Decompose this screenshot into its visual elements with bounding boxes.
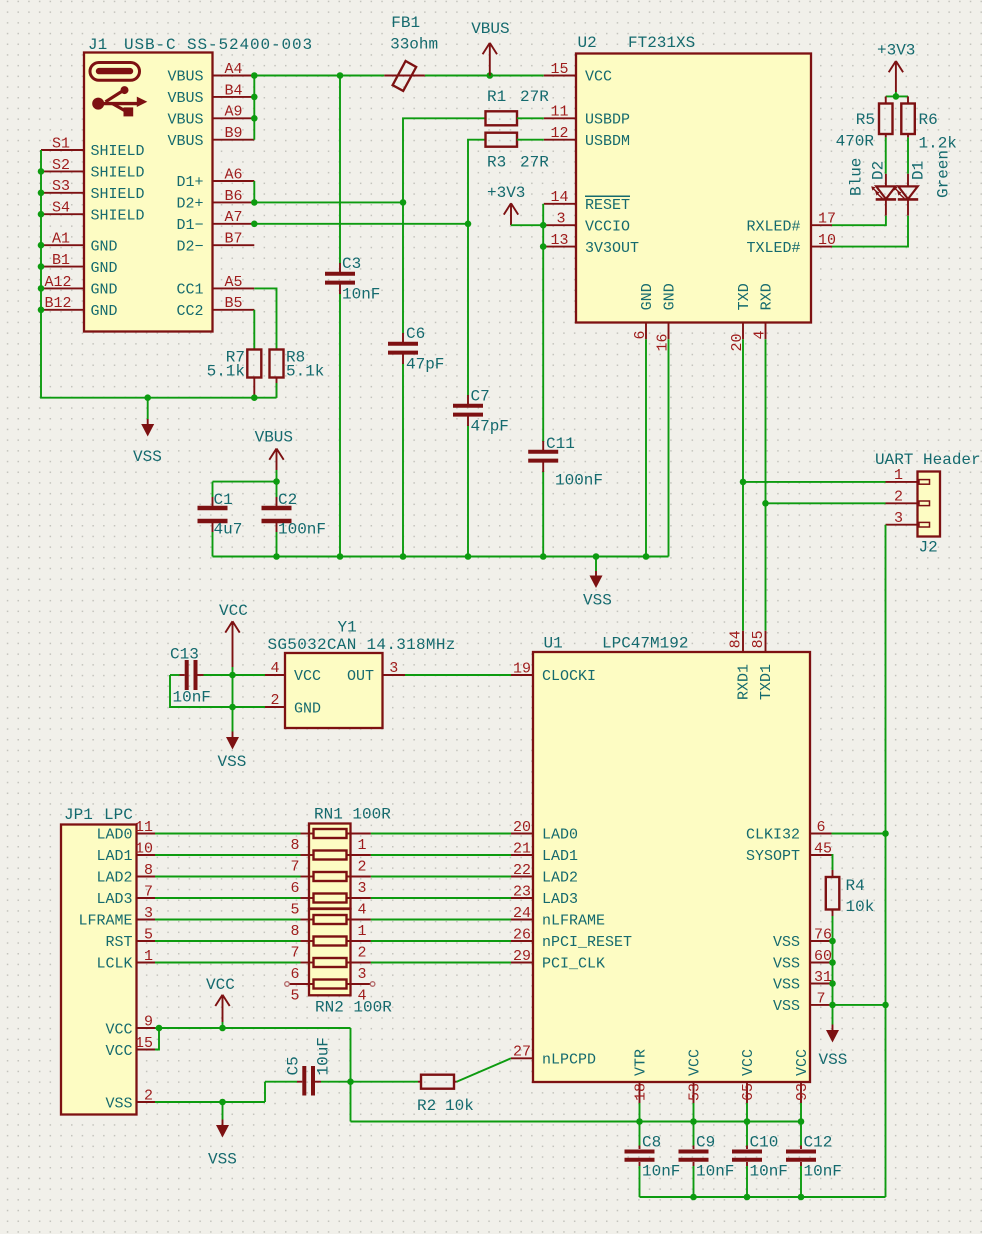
J1 pin B9 VBUS (167, 125, 254, 150)
svg-text:D2+: D2+ (176, 196, 203, 213)
svg-text:LAD3: LAD3 (542, 891, 578, 908)
RN1 resistor element 2 (314, 851, 347, 860)
svg-text:10nF: 10nF (342, 286, 380, 304)
connector J1 USB-C (84, 36, 313, 332)
svg-text:6: 6 (290, 966, 299, 983)
ground VSS mid (583, 557, 612, 610)
junction rail C2 (273, 553, 280, 560)
svg-text:2: 2 (894, 489, 903, 506)
U2 pin 4 RXD (752, 283, 776, 339)
wire GND6 down (645, 339, 647, 556)
U1 pin 60 VSS (773, 948, 832, 973)
svg-text:USBDM: USBDM (585, 133, 630, 150)
svg-text:10nF: 10nF (750, 1163, 788, 1181)
J1 pin S4 SHIELD (41, 200, 145, 225)
svg-text:RXLED#: RXLED# (746, 218, 800, 235)
junction C6 top (400, 199, 407, 206)
svg-text:C8: C8 (642, 1134, 661, 1152)
junction A1 (38, 242, 45, 249)
svg-text:J1: J1 (88, 36, 107, 54)
wire LAD0 RN1-U1 (371, 833, 511, 835)
svg-text:21: 21 (513, 840, 531, 857)
svg-text:27: 27 (513, 1044, 531, 1061)
junction VBUS C2 (273, 478, 280, 485)
svg-text:19: 19 (513, 660, 531, 677)
svg-text:LAD3: LAD3 (96, 891, 132, 908)
svg-text:85: 85 (750, 630, 767, 648)
junction VCC65 (744, 1118, 751, 1125)
svg-text:8: 8 (290, 837, 299, 854)
junction RXD J2 (762, 500, 769, 507)
RN2 pin 3 (347, 963, 371, 984)
U2 pin 6 GND (632, 283, 656, 339)
wire VTR drop (639, 1103, 641, 1122)
svg-text:11: 11 (550, 104, 568, 121)
svg-text:VCCIO: VCCIO (585, 218, 630, 235)
svg-text:TXD1: TXD1 (758, 664, 775, 700)
svg-text:VTR: VTR (633, 1049, 650, 1076)
svg-text:10uF: 10uF (314, 1037, 332, 1075)
svg-text:D2−: D2− (176, 238, 203, 255)
svg-text:VCC: VCC (585, 69, 612, 86)
svg-text:S4: S4 (52, 200, 70, 217)
wire VCC65 drop (746, 1103, 748, 1122)
U1 pin 76 VSS (773, 926, 832, 951)
junction VCCIO (540, 222, 547, 229)
resistor R7 5.1k (207, 349, 262, 398)
svg-text:100nF: 100nF (278, 521, 326, 539)
power symbol +3V3 at VCCIO (487, 184, 525, 225)
ground VSS bottom (208, 1102, 237, 1169)
J1 pin A1 GND (41, 231, 118, 256)
svg-text:VSS: VSS (583, 592, 612, 610)
junction 3V3OUT (540, 243, 547, 250)
svg-text:A6: A6 (224, 166, 242, 183)
svg-text:VSS: VSS (133, 448, 162, 466)
U1 pin 26 nPCI_RESET (511, 926, 632, 951)
svg-text:LPC: LPC (104, 806, 133, 824)
svg-text:nLPCPD: nLPCPD (542, 1052, 596, 1069)
JP1 pin 5 RST (105, 926, 155, 951)
junction C10 bottom (744, 1194, 751, 1201)
svg-text:5: 5 (144, 926, 153, 943)
svg-text:VSS: VSS (105, 1095, 132, 1112)
wire SYSOPT to R4 (832, 855, 833, 870)
junction VCC93 (798, 1118, 805, 1125)
svg-text:GND: GND (91, 303, 118, 320)
junction VSS arrow bottom (219, 1099, 226, 1106)
U1 pin 18 VTR (632, 1049, 649, 1103)
wire R2 left (351, 1081, 419, 1083)
svg-text:B1: B1 (52, 252, 70, 269)
wire shield rail (148, 383, 277, 398)
svg-text:27R: 27R (520, 88, 549, 106)
wire D2+ net (254, 181, 403, 202)
svg-text:+3V3: +3V3 (877, 41, 915, 59)
wire FB1 to VBUS node (425, 75, 544, 77)
power symbol +3V3 top right (877, 41, 915, 96)
junction VSS 76 (829, 938, 836, 945)
RN2 resistor element 2 (314, 937, 347, 946)
resistor R3 27R (486, 133, 550, 172)
svg-text:26: 26 (513, 926, 531, 943)
svg-text:6: 6 (816, 819, 825, 836)
wire LAD2 RN1-U1 (371, 876, 511, 878)
svg-text:GND: GND (91, 238, 118, 255)
svg-text:3: 3 (894, 510, 903, 527)
capacitor C1 4u7 (198, 482, 243, 557)
svg-text:LAD0: LAD0 (96, 827, 132, 844)
junction A4 (251, 72, 258, 79)
JP1 pin 11 LAD0 (96, 819, 155, 844)
U1 pin 53 VCC (686, 1049, 703, 1103)
svg-text:VSS: VSS (773, 998, 800, 1015)
svg-text:B4: B4 (224, 82, 242, 99)
junction VBUS (487, 72, 494, 79)
RN2 pin 2 (347, 941, 371, 962)
Y1 pin 3 OUT (347, 660, 405, 685)
svg-text:4u7: 4u7 (214, 521, 243, 539)
U1 pin 20 LAD0 (511, 819, 578, 844)
svg-text:RN1 100R: RN1 100R (314, 806, 391, 824)
U2 pin 11 USBDP (544, 104, 630, 129)
wire Y1 OUT to U1 CLOCKI (405, 674, 511, 676)
wire VCC column (232, 675, 234, 732)
wire TXD down (742, 339, 744, 631)
svg-text:CC1: CC1 (176, 282, 203, 299)
junction VCC arrow (219, 1025, 226, 1032)
svg-text:SHIELD: SHIELD (91, 186, 145, 203)
svg-text:VCC: VCC (206, 976, 235, 994)
svg-text:84: 84 (728, 630, 745, 648)
U1 pin 29 PCI_CLK (511, 948, 605, 973)
svg-text:B5: B5 (224, 295, 242, 312)
svg-text:+3V3: +3V3 (487, 184, 525, 202)
svg-text:SHIELD: SHIELD (91, 207, 145, 224)
svg-text:VBUS: VBUS (255, 428, 293, 446)
svg-text:USB-C SS-52400-003: USB-C SS-52400-003 (124, 36, 313, 54)
junction VTR (636, 1118, 643, 1125)
svg-text:VSS: VSS (218, 753, 247, 771)
svg-text:1: 1 (358, 837, 367, 854)
wire VSS row (155, 1082, 297, 1102)
svg-text:11: 11 (135, 819, 153, 836)
svg-text:RESET: RESET (585, 197, 630, 214)
wire VCC distribution row (351, 1121, 802, 1123)
U2 pin 10 TXLED# (746, 232, 836, 257)
svg-text:R1: R1 (487, 88, 506, 106)
junction rail GND6 (643, 553, 650, 560)
junction rail C7 (465, 553, 472, 560)
wire RXD to J2 pin2 (766, 502, 886, 504)
U2 pin 12 USBDM (544, 125, 630, 150)
svg-text:LFRAME: LFRAME (78, 913, 132, 930)
svg-text:47pF: 47pF (406, 356, 444, 374)
svg-text:7: 7 (290, 945, 299, 962)
capacitor C9 10nF (679, 1122, 735, 1198)
RN1 pin 1 (347, 834, 371, 855)
junction rail C11 (540, 553, 547, 560)
junction C12 bottom (798, 1194, 805, 1201)
svg-text:TXD: TXD (736, 283, 753, 310)
resistor R5 470R (836, 96, 893, 150)
resistor R8 5.1k (270, 349, 325, 398)
U2 pin 15 VCC (544, 61, 612, 86)
wire GND16 down (668, 339, 670, 556)
svg-text:20: 20 (513, 819, 531, 836)
svg-text:53: 53 (686, 1083, 703, 1101)
svg-text:nLFRAME: nLFRAME (542, 913, 605, 930)
svg-text:S1: S1 (52, 135, 70, 152)
svg-text:LAD2: LAD2 (96, 870, 132, 887)
junction VSS 60 (829, 959, 836, 966)
svg-text:27R: 27R (520, 154, 549, 172)
svg-text:UART Header: UART Header (875, 451, 981, 469)
svg-text:C13: C13 (170, 646, 199, 664)
wire LAD0 JP1-RN1 (155, 833, 301, 835)
wire VCC93 drop (800, 1103, 802, 1122)
svg-text:1: 1 (894, 467, 903, 484)
wire LCLK JP1-RN2 (155, 962, 301, 964)
wire R4 to VSS pins (832, 916, 834, 1005)
oscillator Y1 SG5032CAN (268, 619, 456, 729)
wire C13 left down (170, 675, 265, 707)
U1 pin 24 nLFRAME (511, 905, 605, 930)
svg-text:3: 3 (556, 211, 565, 228)
svg-text:VBUS: VBUS (167, 112, 203, 129)
ground VSS at U1 (819, 1005, 848, 1069)
U1 pin 6 CLKI32 (746, 819, 832, 844)
J1 pin B12 GND (41, 295, 118, 320)
U1 pin 19 CLOCKI (511, 660, 596, 685)
wire VCC column down (350, 1028, 352, 1122)
wire R5 R6 tops (886, 95, 908, 97)
svg-text:10nF: 10nF (642, 1163, 680, 1181)
RN1 resistor element 3 (314, 872, 347, 881)
LED D1 Green (893, 150, 952, 216)
U2 pin 16 GND (655, 283, 679, 351)
svg-text:S2: S2 (52, 157, 70, 174)
svg-text:47pF: 47pF (471, 418, 509, 436)
svg-text:TXLED#: TXLED# (746, 240, 800, 257)
junction C7 top (465, 221, 472, 228)
svg-text:GND: GND (294, 700, 321, 717)
svg-text:13: 13 (550, 232, 568, 249)
svg-text:RXD1: RXD1 (736, 664, 753, 700)
svg-text:VCC: VCC (687, 1049, 704, 1076)
Y1 pin 2 GND (265, 692, 321, 717)
svg-text:D2: D2 (870, 161, 888, 180)
junction rail C6 (400, 553, 407, 560)
RN2 pin 6 (290, 963, 313, 984)
svg-text:VCC: VCC (294, 668, 321, 685)
junction B1 (38, 263, 45, 270)
U1 pin 85 TXD1 (750, 630, 775, 700)
U1 pin 84 RXD1 (728, 630, 753, 700)
wire VCC53 drop (693, 1103, 695, 1122)
capacitor C7 47pF (453, 388, 509, 436)
ferrite bead FB1 33ohm (384, 14, 438, 91)
resistor R1 27R (486, 88, 550, 125)
svg-text:GND: GND (91, 260, 118, 277)
resistor network RN2 100R (309, 909, 392, 1017)
wire C1 C2 tops (213, 481, 277, 483)
U1 pin 65 VCC (740, 1049, 757, 1103)
svg-text:R5: R5 (856, 111, 875, 129)
svg-text:6: 6 (290, 880, 299, 897)
J1 USB trident icon (92, 86, 147, 116)
J1 pin S3 SHIELD (41, 178, 145, 203)
J1 pin B5 CC2 (176, 295, 254, 320)
junction C5 R2 (347, 1078, 354, 1085)
power symbol VCC bottom (206, 976, 235, 1028)
connector JP1 LPC (61, 806, 137, 1115)
junction VSS 31 (829, 980, 836, 987)
Y1 pin 4 VCC (265, 660, 321, 685)
svg-text:SHIELD: SHIELD (91, 143, 145, 160)
U1 pin 45 SYSOPT (746, 840, 832, 865)
svg-text:14: 14 (550, 189, 568, 206)
U1 pin 23 LAD3 (511, 883, 578, 908)
junction B4 (251, 94, 258, 101)
svg-text:LAD0: LAD0 (542, 827, 578, 844)
junction A9 (251, 115, 258, 122)
U2 pin 14 RESET (544, 189, 630, 214)
J1 pin B6 D2+ (176, 188, 254, 213)
svg-text:2: 2 (358, 859, 367, 876)
svg-text:15: 15 (550, 61, 568, 78)
junction VSS 7 (829, 1002, 836, 1009)
svg-text:10nF: 10nF (173, 689, 211, 707)
svg-text:D1: D1 (910, 161, 928, 180)
svg-text:Blue: Blue (848, 158, 866, 196)
svg-text:3: 3 (144, 905, 153, 922)
U1 pin 21 LAD1 (511, 840, 578, 865)
svg-text:SG5032CAN 14.318MHz: SG5032CAN 14.318MHz (268, 636, 456, 654)
svg-text:12: 12 (550, 125, 568, 142)
J1 pin B1 GND (41, 252, 118, 277)
svg-text:9: 9 (144, 1013, 153, 1030)
svg-text:B7: B7 (224, 231, 242, 248)
resistor R6 1.2k (901, 96, 957, 152)
U1 pin 22 LAD2 (511, 862, 578, 887)
RN2 pin 5 open (285, 982, 314, 1005)
wire C6 column to R1 (403, 118, 486, 202)
svg-text:22: 22 (513, 862, 531, 879)
svg-text:R6: R6 (919, 111, 938, 129)
wire CC1 to R8 (254, 288, 276, 349)
svg-text:C3: C3 (342, 255, 361, 273)
JP1 pin 15 VCC (105, 1035, 155, 1060)
resistor network RN1 100R (309, 806, 391, 909)
svg-text:GND: GND (91, 282, 118, 299)
svg-text:VSS: VSS (773, 977, 800, 994)
svg-text:OUT: OUT (347, 668, 374, 685)
svg-text:VCC: VCC (105, 1021, 132, 1038)
wire TXD to J2 pin1 (743, 481, 886, 483)
junction rail VSS arrow (593, 553, 600, 560)
wire RXD down (765, 339, 767, 631)
J1 pin A9 VBUS (167, 104, 254, 129)
svg-text:C9: C9 (696, 1134, 715, 1152)
U2 pin 13 3V3OUT (544, 232, 639, 257)
wire C3 column (339, 76, 341, 557)
wire CLKI32 to rail (832, 833, 886, 835)
svg-text:Green: Green (935, 150, 953, 198)
svg-text:CLKI32: CLKI32 (746, 827, 800, 844)
LED D2 Blue (848, 158, 897, 216)
wire C7 column down (467, 224, 469, 557)
svg-text:93: 93 (794, 1083, 811, 1101)
svg-text:6: 6 (632, 330, 649, 339)
RN1 pin 7 (290, 855, 313, 876)
svg-text:C10: C10 (750, 1134, 779, 1152)
J1 pin S1 SHIELD (41, 135, 145, 160)
wire bottom ground rail (640, 1196, 886, 1198)
junction pin15 tie (156, 1025, 163, 1032)
resistor R2 10k (417, 1075, 474, 1115)
U2 pin 17 RXLED# (746, 211, 836, 236)
svg-text:B9: B9 (224, 125, 242, 142)
power symbol VBUS at C2 (255, 428, 293, 481)
svg-text:C1: C1 (214, 491, 233, 509)
wire C7 column to R3 (468, 140, 486, 224)
svg-text:PCI_CLK: PCI_CLK (542, 956, 605, 973)
svg-text:LAD1: LAD1 (542, 848, 578, 865)
IC U1 LPC47M192 (533, 635, 810, 1083)
J1 pin A7 D1- (176, 209, 254, 234)
capacitor C5 10uF (285, 1037, 351, 1095)
svg-text:A4: A4 (224, 61, 242, 78)
J1 pin A5 CC1 (176, 274, 254, 299)
svg-text:33ohm: 33ohm (390, 36, 438, 54)
junction S2 (38, 168, 45, 175)
wire VBUS to FB1 (254, 75, 384, 77)
U2 pin 20 TXD (729, 283, 753, 351)
svg-text:Y1: Y1 (338, 619, 357, 637)
wire LAD2 JP1-RN1 (155, 876, 301, 878)
wire J2 pin3 down rail (885, 525, 887, 1197)
wire CC2 to R7 (253, 310, 255, 350)
svg-text:SHIELD: SHIELD (91, 165, 145, 182)
svg-text:R4: R4 (846, 877, 865, 895)
J2 pin 2 (886, 489, 930, 506)
wire PCI_CLK RN2-U1 (371, 962, 511, 964)
svg-text:10: 10 (135, 840, 153, 857)
wire VBUS pins tie (253, 76, 255, 140)
ground VSS at Y1 (218, 732, 247, 772)
svg-text:15: 15 (135, 1035, 153, 1052)
svg-text:3: 3 (358, 966, 367, 983)
junction A12 (38, 285, 45, 292)
svg-text:LAD1: LAD1 (96, 848, 132, 865)
svg-text:S3: S3 (52, 178, 70, 195)
svg-text:GND: GND (662, 283, 679, 310)
svg-text:JP1: JP1 (64, 806, 93, 824)
RN1 resistor element 1 (314, 829, 347, 838)
svg-text:C12: C12 (804, 1134, 833, 1152)
svg-text:7: 7 (144, 883, 153, 900)
junction S3 (38, 190, 45, 197)
svg-text:U2: U2 (578, 34, 597, 52)
svg-text:4: 4 (270, 660, 279, 677)
svg-text:3: 3 (358, 880, 367, 897)
svg-text:100nF: 100nF (555, 472, 603, 490)
U1 pin 31 VSS (773, 969, 832, 994)
svg-text:4: 4 (358, 902, 367, 919)
svg-text:7: 7 (290, 859, 299, 876)
connector J2 UART Header (875, 451, 981, 557)
